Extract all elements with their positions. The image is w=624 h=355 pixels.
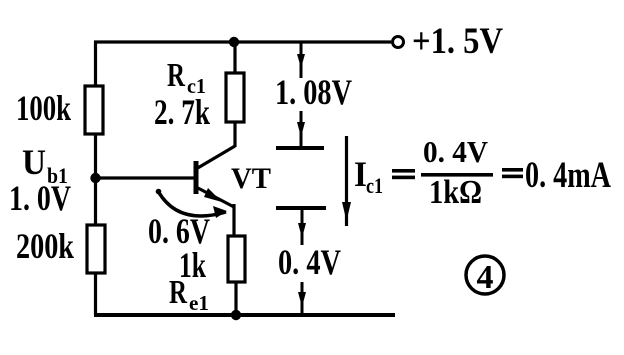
voltage arrow 0.6V curved arc <box>156 189 227 218</box>
label 0.6V <box>148 211 210 251</box>
circled figure number 4 <box>466 256 504 296</box>
wire: left vertical branch <box>94 42 97 315</box>
svg-text:0. 4V: 0. 4V <box>423 134 489 169</box>
wire: collector branch from rail to Rc1 <box>233 42 236 75</box>
formula numerator 0.4V <box>423 134 489 169</box>
voltage annotation 1.08V upper arrow segment <box>297 43 305 78</box>
resistor R1 100k <box>85 86 103 134</box>
formula equals sign 1 <box>392 169 415 179</box>
svg-text:e1: e1 <box>189 291 209 315</box>
terminal: +1.5V open circle <box>393 37 404 48</box>
label 0.4V <box>278 242 341 282</box>
label 1.0V <box>9 178 71 218</box>
svg-text:2. 7k: 2. 7k <box>154 92 210 132</box>
wire: base lead from Ub1 node <box>96 176 197 179</box>
svg-text:VT: VT <box>231 162 271 195</box>
wire: Re1 to bottom rail <box>234 282 237 315</box>
svg-text:0. 4mA: 0. 4mA <box>525 155 611 196</box>
formula label Ic1 <box>354 154 383 198</box>
label 1.08V <box>275 72 352 112</box>
node: collector branch junction dot on top rail <box>229 37 239 47</box>
voltage annotation 0.4V lower arrow segment <box>298 282 306 314</box>
svg-text:1kΩ: 1kΩ <box>429 174 482 211</box>
svg-text:R: R <box>169 274 187 311</box>
node: emitter potential reference bar <box>276 206 326 210</box>
label 2.7k <box>154 92 210 132</box>
wire: bottom rail <box>94 313 395 317</box>
svg-text:200k: 200k <box>16 226 74 266</box>
resistor R2 200k <box>87 225 105 273</box>
formula result 0.4mA <box>525 155 611 196</box>
label VT <box>231 162 271 195</box>
label 1k <box>179 245 206 285</box>
wire: Rc1 to collector <box>233 122 236 147</box>
label Ub1 <box>22 142 68 188</box>
node: emitter branch junction dot on bottom rail <box>231 310 241 320</box>
svg-text:c1: c1 <box>366 173 383 198</box>
node: collector potential reference bar <box>276 146 324 150</box>
node Ub1 junction dot <box>90 173 100 183</box>
label Re1 <box>169 274 209 315</box>
svg-text:1. 0V: 1. 0V <box>9 178 71 218</box>
voltage annotation 0.4V upper arrow segment <box>298 210 306 245</box>
svg-text:+1. 5V: +1. 5V <box>412 21 503 62</box>
svg-text:100k: 100k <box>16 88 71 128</box>
formula equals sign 2 <box>502 168 523 178</box>
svg-text:1. 08V: 1. 08V <box>275 72 352 112</box>
label 100k <box>16 88 71 128</box>
formula denominator 1kΩ <box>429 174 482 211</box>
label +1.5V <box>412 21 503 62</box>
transistor Q1 VT <box>196 146 235 238</box>
svg-text:R: R <box>167 57 185 94</box>
wire: top supply rail <box>94 40 391 43</box>
resistor R4 Re1 1k <box>228 236 245 282</box>
svg-text:0. 4V: 0. 4V <box>278 242 341 282</box>
current arrow Ic1 <box>342 136 351 226</box>
formula fraction bar <box>421 173 493 177</box>
voltage annotation 1.08V lower arrow segment <box>297 111 305 147</box>
label Rc1 <box>167 57 206 98</box>
label 200k <box>16 226 74 266</box>
svg-text:4: 4 <box>477 259 494 296</box>
svg-text:U: U <box>22 142 46 182</box>
resistor R3 Rc1 2.7k <box>226 73 244 122</box>
